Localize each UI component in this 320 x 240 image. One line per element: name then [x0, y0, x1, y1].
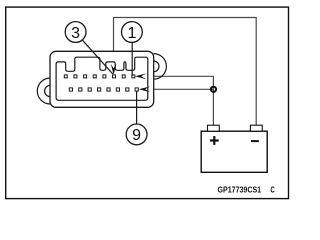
svg-text:3: 3: [71, 25, 80, 42]
right mounting ear: [154, 54, 167, 80]
arrowhead: wire into pin 9 (pointing left): [139, 86, 151, 92]
junction dot: [211, 87, 216, 92]
wire: pin6 to battery negative (up, right, down): [114, 18, 257, 126]
callout line 9 to pin9: [136, 91, 138, 124]
border frame: [6, 7, 289, 199]
wire: pin8 to battery positive (right, down): [136, 76, 213, 125]
bottom row pin d: [98, 88, 101, 91]
svg-text:1: 1: [127, 25, 136, 42]
arrowhead: wire into pin 8 (pointing left): [135, 73, 147, 79]
battery body: [201, 131, 267, 172]
callout line 1 to pin8: [131, 42, 133, 76]
battery positive post: [208, 125, 220, 131]
connector outer housing: [50, 51, 154, 107]
top row pin e: [103, 75, 106, 78]
bottom row pin g: [126, 88, 129, 91]
bottom row pin b: [79, 88, 82, 91]
left mounting ear: [37, 78, 50, 104]
top row pin d: [93, 75, 96, 78]
connector inner outline with castellations: [56, 57, 148, 100]
bottom row pin c: [88, 88, 91, 91]
pin 9 (terminal pointed by callout 9 and battery + lead): [135, 88, 138, 91]
top row pin g: [122, 75, 125, 78]
top row pin a: [64, 75, 67, 78]
callout line 3 to pin6: [82, 40, 113, 74]
pin 3 (terminal pointed by callout 3 and battery - lead): [113, 75, 116, 78]
minus symbol: [251, 140, 259, 142]
plus symbol: [210, 136, 219, 145]
top row pin b: [74, 75, 77, 78]
bottom row pin f: [116, 88, 119, 91]
callout circle 9: [126, 124, 147, 145]
svg-text:GP17739CS1: GP17739CS1: [218, 184, 262, 194]
bottom row pin e: [107, 88, 110, 91]
top row pin c: [84, 75, 87, 78]
bottom row pin a: [69, 88, 72, 91]
callout circle 1: [121, 22, 142, 43]
top row pins (8): [64, 75, 135, 78]
arrowhead: wire into pin 6 (pointing down): [111, 64, 117, 75]
bottom row pins (8): [69, 88, 138, 91]
svg-text:C: C: [271, 184, 275, 194]
callout circle 3: [65, 22, 86, 43]
svg-text:9: 9: [132, 127, 141, 144]
pin 1 (terminal pointed by callout 1 and battery + lead): [132, 75, 135, 78]
battery negative post: [250, 125, 262, 131]
wire: pin9 to junction: [140, 88, 214, 90]
